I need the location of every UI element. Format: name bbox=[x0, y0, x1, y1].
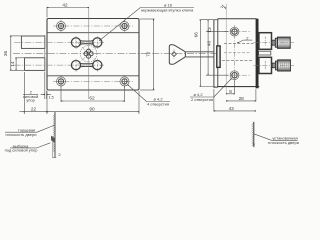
dim 43 bbox=[214, 89, 256, 112]
plate outline bbox=[47, 19, 139, 91]
svg-text:42: 42 bbox=[62, 2, 68, 7]
leader торцевая bbox=[37, 125, 55, 132]
case outline bbox=[217, 19, 260, 87]
stop block top bbox=[259, 33, 272, 50]
stop block bottom bbox=[259, 57, 272, 73]
knob top bbox=[272, 37, 290, 48]
side screw top bbox=[230, 27, 239, 36]
dim 66 bbox=[200, 20, 218, 87]
side screws vertical centerline bbox=[234, 25, 236, 82]
svg-text:8: 8 bbox=[229, 89, 232, 94]
bolt bar (black) bbox=[217, 46, 220, 68]
screw BL bbox=[57, 75, 66, 88]
dim 14 bbox=[15, 58, 24, 71]
leader o16 bushing bbox=[100, 8, 141, 41]
bolt 2 (bottom latch) bbox=[25, 58, 45, 71]
knob top centerline bbox=[254, 42, 296, 44]
band line bottom bbox=[47, 75, 139, 77]
bolt row centerline 1 bbox=[14, 41, 104, 43]
dim 90 and dim 22 chained bbox=[19, 72, 139, 114]
svg-text:22: 22 bbox=[31, 106, 37, 111]
callout 2 leader bbox=[238, 40, 244, 43]
bolt 1 (top latch) bbox=[21, 36, 44, 48]
handle shaft bbox=[185, 51, 213, 53]
dim 1,5 bbox=[41, 72, 52, 99]
leader выборка bbox=[37, 143, 50, 148]
keyhole quatrefoil bbox=[84, 49, 93, 58]
svg-text:нержавеющая втулка ключа: нержавеющая втулка ключа bbox=[141, 7, 194, 12]
main horizontal centerline bbox=[13, 53, 219, 55]
keyhole pitch circle bbox=[80, 45, 97, 62]
dumbbell slot 2 bbox=[71, 59, 102, 72]
svg-text:66: 66 bbox=[194, 32, 199, 38]
dim 42 bbox=[47, 7, 89, 18]
band line top bbox=[47, 32, 139, 34]
svg-text:плоскость двери: плоскость двери bbox=[268, 140, 299, 145]
svg-text:упор: упор bbox=[26, 98, 35, 103]
svg-text:2 отверстия: 2 отверстия bbox=[191, 97, 213, 102]
svg-text:70: 70 bbox=[145, 51, 150, 57]
mounting plate front bbox=[213, 20, 215, 88]
side screw bottom horiz centerline bbox=[224, 74, 251, 76]
keyhole diagonal centerline NW-SE bbox=[76, 41, 102, 67]
svg-text:под силовой упор: под силовой упор bbox=[5, 148, 39, 153]
dim 36 bbox=[10, 36, 24, 70]
keyhole diagonal centerline NE-SW bbox=[76, 41, 102, 67]
svg-text:36: 36 bbox=[3, 51, 8, 57]
leader 2 holes bbox=[214, 79, 232, 98]
svg-text:2: 2 bbox=[246, 35, 249, 40]
leader установочная bbox=[254, 134, 272, 141]
dim 70 right of plate bbox=[140, 19, 155, 90]
middle bar bbox=[259, 51, 271, 55]
underline silovoy upor bbox=[23, 93, 38, 95]
svg-text:62: 62 bbox=[89, 96, 95, 101]
knob bottom bbox=[272, 60, 290, 71]
spindle square bbox=[172, 49, 177, 59]
door end plane line (left) bbox=[54, 112, 56, 158]
dim 62 bbox=[61, 86, 125, 102]
svg-text:2: 2 bbox=[58, 152, 61, 157]
svg-text:43: 43 bbox=[229, 106, 235, 111]
svg-text:плоскость двери: плоскость двери bbox=[6, 132, 37, 137]
tiny 2 mark at top bbox=[222, 5, 226, 9]
svg-text:4 отверстия: 4 отверстия bbox=[147, 102, 169, 107]
reference line 8mm bbox=[225, 4, 227, 95]
screw row centerline bottom bbox=[53, 80, 133, 82]
svg-text:2: 2 bbox=[220, 6, 224, 8]
leader 4 holes bbox=[128, 85, 147, 102]
screw TR bbox=[120, 20, 129, 33]
side screw top horiz centerline bbox=[224, 31, 251, 33]
handle flag bbox=[169, 45, 185, 65]
dim 28 bbox=[226, 89, 256, 102]
hidden dashed lines bbox=[224, 42, 254, 44]
svg-text:28: 28 bbox=[239, 96, 245, 101]
keyhole vertical centerline / dim extension bbox=[88, 7, 90, 99]
svg-text:90: 90 bbox=[89, 106, 95, 111]
screw row centerline top bbox=[53, 25, 133, 27]
screw TL bbox=[57, 20, 66, 33]
screw BR bbox=[120, 75, 129, 88]
side screw bottom bbox=[230, 71, 239, 80]
dim 13 / 40 bbox=[206, 20, 228, 75]
door mounting plane (right) bbox=[253, 122, 255, 147]
dumbbell slot 1 bbox=[71, 36, 102, 49]
notch depth tick + 2 bbox=[52, 156, 56, 158]
case face plate thick edge bbox=[256, 19, 259, 89]
svg-text:40: 40 bbox=[206, 40, 211, 46]
dim 8 bbox=[226, 81, 234, 95]
svg-text:1,5: 1,5 bbox=[49, 96, 54, 100]
recess notch hatched bbox=[51, 136, 55, 144]
svg-text:13: 13 bbox=[207, 27, 212, 33]
svg-text:14: 14 bbox=[10, 61, 15, 67]
bolt face line bbox=[44, 35, 46, 72]
knob bottom centerline bbox=[254, 64, 296, 66]
bolt row centerline 2 bbox=[14, 64, 104, 66]
